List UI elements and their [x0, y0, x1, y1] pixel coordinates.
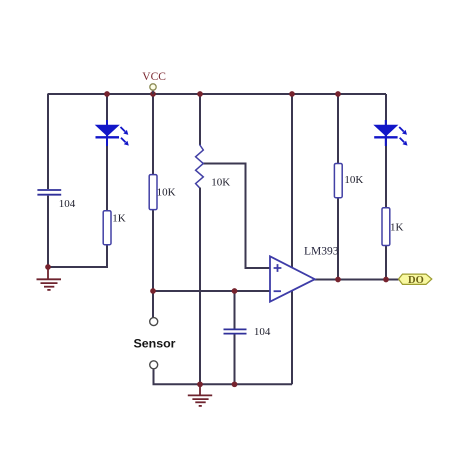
wire output run to DO	[314, 279, 399, 281]
node VCC bus / R2	[150, 91, 156, 97]
wire minus input	[153, 290, 270, 292]
wire bottom ground run	[154, 369, 293, 384]
node bottom / C2	[232, 381, 238, 387]
sensor terminal pin 1	[150, 318, 158, 326]
svg-text:10K: 10K	[211, 177, 230, 189]
capacitor C1	[37, 190, 75, 210]
node VCC bus / RP1	[197, 91, 203, 97]
svg-text:LM393: LM393	[304, 246, 339, 258]
node VCC bus / R3	[335, 91, 341, 97]
sensor terminal pin 2	[150, 361, 158, 369]
capacitor C2	[224, 326, 271, 338]
node C1 / R1 / GND1	[45, 264, 51, 270]
svg-text:VCC: VCC	[142, 71, 166, 83]
svg-text:10K: 10K	[344, 174, 363, 186]
wire node to R1 bottom	[48, 244, 107, 267]
svg-text:DO: DO	[408, 275, 424, 286]
ground GND1	[37, 267, 62, 290]
resistor R1 1K	[103, 211, 126, 245]
node output / R4	[383, 277, 389, 283]
LED D1	[96, 120, 129, 146]
wire wiper to plus input	[202, 164, 270, 269]
resistor R2 10K	[149, 175, 175, 210]
wire R3 branch vertical	[337, 94, 339, 280]
potentiometer RP1 10K	[196, 145, 231, 189]
svg-text:104: 104	[59, 198, 76, 210]
node VCC bus / U1 power	[289, 91, 295, 97]
ground GND2	[188, 384, 212, 406]
op-amp U1 LM393	[270, 246, 339, 302]
wire top VCC bus	[48, 93, 387, 95]
svg-text:1K: 1K	[390, 222, 404, 234]
svg-text:Sensor: Sensor	[134, 337, 176, 351]
node bottom / RP1 / GND2	[197, 381, 203, 387]
port DO	[399, 274, 432, 286]
svg-text:104: 104	[254, 326, 271, 338]
node R2 / sensor / minus wire	[150, 288, 156, 294]
wire D2 R4 branch vertical	[385, 94, 387, 280]
wire U1 power rail vertical	[291, 94, 293, 384]
svg-text:10K: 10K	[157, 186, 176, 198]
wire left branch down to C1 and node	[47, 94, 49, 267]
wire D1 branch vertical	[106, 94, 108, 211]
VCC power pin	[142, 71, 166, 94]
node VCC bus / D1	[104, 91, 110, 97]
node output / R3	[335, 277, 341, 283]
svg-text:1K: 1K	[112, 212, 126, 224]
LED D2	[374, 120, 407, 146]
wire RP1 branch vertical	[199, 94, 201, 384]
wire VCC pin stub	[152, 89, 154, 94]
resistor R3 10K	[334, 164, 363, 198]
wire R2 branch vertical	[152, 94, 154, 318]
node C2 top tap	[232, 288, 238, 294]
wire C2 branch vertical	[234, 291, 236, 384]
resistor R4 1K	[382, 208, 404, 246]
